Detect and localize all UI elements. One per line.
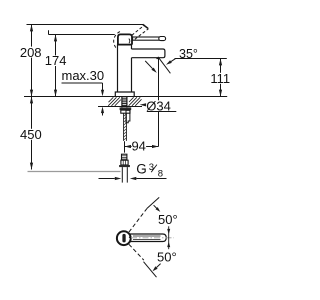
svg-text:G: G <box>136 162 147 177</box>
lower swivel ray (dashed) <box>129 244 157 277</box>
top view centerline (gray) <box>131 237 174 239</box>
dimension 208 <box>20 25 42 97</box>
top view lever <box>130 234 167 242</box>
svg-text:94: 94 <box>131 139 145 154</box>
35-degree leader arrow <box>166 59 176 65</box>
base rosette <box>115 92 134 96</box>
spout <box>132 49 165 58</box>
lower 50deg leader arrow <box>153 264 161 272</box>
dimension 450 <box>20 97 42 170</box>
hose end thread stub <box>119 154 130 182</box>
svg-text:450: 450 <box>20 127 42 142</box>
top view faucet circle <box>117 231 131 245</box>
hose fitting bracket <box>126 110 130 122</box>
dimension 94 <box>125 139 159 154</box>
mounting nut <box>120 107 132 113</box>
aerator <box>156 58 159 59</box>
svg-text:50°: 50° <box>157 249 177 264</box>
svg-text:35°: 35° <box>179 47 198 61</box>
dimension 111 <box>210 59 231 97</box>
lever stick (rest position) <box>133 37 162 40</box>
svg-text:8: 8 <box>158 169 163 180</box>
lever swing dashed arc <box>114 31 121 47</box>
svg-text:max.30: max.30 <box>62 68 105 83</box>
upper 50deg leader arrow <box>154 205 161 212</box>
countertop line <box>24 96 227 98</box>
detail dot <box>129 236 131 238</box>
upper swivel ray (dashed) <box>129 197 159 232</box>
vertical extension line from aerator <box>158 59 160 147</box>
extension line top (208 level) <box>27 24 144 26</box>
svg-text:111: 111 <box>210 71 230 86</box>
faucet body walls <box>118 45 132 92</box>
shank threads below counter <box>122 97 127 108</box>
dimension G3/8 arrows <box>99 177 167 180</box>
leader line to 35-degree label <box>175 58 227 60</box>
raised lever (dashed) <box>132 24 149 39</box>
swivel span arrows <box>167 226 170 249</box>
35-degree spray line <box>158 57 170 74</box>
counter cross-section bottom line <box>98 106 142 108</box>
flexible hose <box>124 113 127 141</box>
counter hatching right <box>129 97 142 106</box>
cartridge mark <box>129 39 130 44</box>
svg-text:208: 208 <box>20 45 42 60</box>
svg-text:174: 174 <box>45 53 67 68</box>
hose length reference line (gray) <box>28 171 121 173</box>
handle slot <box>122 234 125 243</box>
counter hatching left <box>108 97 121 106</box>
lever tip bulb <box>159 37 166 41</box>
label G 3/8 <box>136 162 163 180</box>
svg-text:50°: 50° <box>158 212 178 227</box>
cartridge head <box>117 34 132 44</box>
extension line 174 level <box>49 30 115 34</box>
dimension 174 <box>45 35 67 97</box>
35-degree left arc arrow <box>145 61 157 73</box>
label max.30 with leader <box>62 68 105 116</box>
label diameter 34 <box>140 99 177 114</box>
